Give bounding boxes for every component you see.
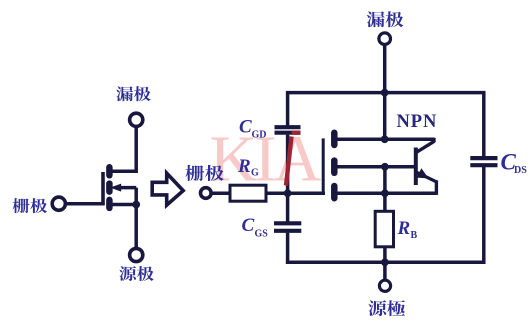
wire gate lead (right) — [211, 191, 230, 195]
wire R_B to bottom rail — [383, 247, 387, 262]
svg-text:C: C — [242, 215, 255, 236]
capacitor C_GS bottom plate — [274, 229, 301, 233]
wire right edge below C_DS — [482, 167, 486, 264]
wire drain stem (right) — [383, 46, 387, 141]
terminal gate (right) — [201, 188, 212, 199]
block arrow — [152, 173, 183, 205]
mosfet Q2 gate bar — [322, 138, 325, 195]
svg-text:GD: GD — [252, 130, 267, 141]
label gate (left) 栅极 — [13, 198, 48, 213]
terminal gate (left) — [52, 197, 65, 210]
junction source node (left) — [132, 201, 140, 209]
transistor NPN emitter riser — [435, 180, 438, 195]
wire drain horizontal (left) — [107, 170, 136, 174]
wire source stem (right) — [383, 262, 387, 280]
label drain (left) 漏极 — [116, 86, 151, 101]
junction source/bottom rail — [381, 258, 389, 266]
capacitor C_GD bottom plate — [275, 131, 301, 135]
transistor NPN collector riser — [432, 138, 435, 143]
label source (left) 源极 — [119, 266, 154, 281]
junction gate node — [284, 189, 292, 197]
svg-text:DS: DS — [514, 165, 527, 176]
label source (right) 源極 — [368, 300, 405, 316]
capacitor C_DS top plate — [470, 156, 497, 160]
svg-text:G: G — [251, 167, 259, 178]
svg-text:GS: GS — [255, 229, 269, 240]
wire body to source (left) — [120, 186, 136, 190]
wire bottom rail — [286, 261, 486, 265]
wire base node to R_B — [383, 167, 387, 212]
transistor NPN collector diagonal — [416, 141, 434, 152]
mosfet Q1 body stub — [106, 184, 113, 192]
capacitor C_GS top plate — [274, 221, 301, 225]
svg-text:C: C — [239, 117, 252, 138]
terminal drain (left) — [130, 113, 143, 126]
red overlap on C_GD bottom plate — [292, 131, 301, 135]
wire body drop (left) — [134, 188, 138, 205]
wire gate lead (left) — [67, 202, 105, 206]
junction drain wire — [381, 135, 389, 143]
wire drain stem (left) — [134, 128, 138, 173]
junction drain/top rail — [381, 89, 389, 97]
svg-text:B: B — [411, 230, 418, 241]
terminal drain (right) — [379, 33, 391, 45]
wire branch above C_GD — [286, 93, 290, 126]
mosfet Q2 body stub — [331, 161, 338, 173]
label drain (right) 漏极 — [367, 11, 404, 27]
svg-text:R: R — [397, 218, 411, 239]
transistor NPN emitter diagonal — [416, 172, 436, 182]
resistor R_G — [230, 185, 266, 201]
terminal source (left) — [130, 248, 143, 261]
resistor R_B — [375, 211, 393, 247]
wire source horizontal (left) — [107, 203, 136, 207]
transistor NPN emitter arrowhead — [417, 168, 429, 178]
wire source stem (left) — [134, 205, 138, 249]
wire mosfet drain to collector — [336, 137, 434, 141]
wire top rail — [286, 91, 486, 95]
capacitor C_DS bottom plate — [470, 163, 497, 167]
watermark A left leg (red overlap) — [286, 137, 292, 186]
junction source wire — [381, 189, 389, 197]
wire branch C_GS to bottom rail — [286, 233, 290, 264]
label gate (right) 栅极 — [185, 165, 223, 181]
svg-text:R: R — [237, 156, 251, 177]
mosfet Q1 gate bar — [101, 172, 105, 205]
wire R_G to mosfet gate — [266, 191, 325, 195]
mosfet Q1 body arrow — [110, 184, 121, 192]
mosfet Q1 drain stub — [106, 167, 113, 175]
transistor NPN base bar — [414, 148, 418, 186]
wire right edge above C_DS — [482, 93, 486, 157]
junction base node — [381, 163, 389, 171]
wire mosfet source to emitter — [336, 191, 436, 195]
mosfet Q2 drain stub — [331, 133, 338, 145]
terminal source (right) — [379, 280, 390, 291]
mosfet Q2 source stub — [331, 186, 338, 198]
svg-text:NPN: NPN — [397, 112, 438, 132]
wire body to base — [336, 165, 415, 169]
wire branch C_GD to gate node — [286, 135, 290, 222]
mosfet Q1 source stub — [106, 200, 113, 208]
capacitor C_GD top plate — [275, 125, 301, 129]
